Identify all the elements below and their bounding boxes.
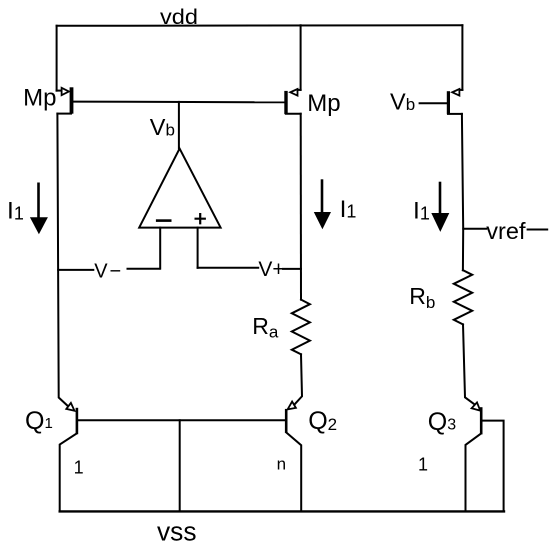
current arrow I1 left [30,184,48,234]
wire op-amp inverting input lead [159,228,161,269]
svg-text:Ra: Ra [252,313,279,342]
wire vref stub right [528,229,548,231]
wire V- net left segment [58,269,93,271]
wire left rail lower (Mp1 drain to Q1) [57,114,69,408]
svg-text:Mp: Mp [23,84,56,111]
svg-text:vdd: vdd [160,6,198,29]
svg-text:vref: vref [486,218,526,244]
wire V- net right segment [128,268,160,270]
wire V+ net right segment [283,268,301,270]
svg-text:I1: I1 [340,196,357,223]
svg-text:Q2: Q2 [308,407,337,435]
wire right rail (Mp3 drain to Rb) [462,114,463,270]
resistor Ra [292,300,310,355]
wire gate bus (Mp1 gate to Mp2 gate) [73,101,284,104]
svg-text:Vb: Vb [390,89,415,115]
transistor Mp2 [284,25,300,114]
wire Rb to Q3 emitter [463,324,477,405]
svg-text:Q1: Q1 [25,407,53,435]
svg-text:Q3: Q3 [428,408,456,436]
svg-text:n: n [277,454,286,473]
wire vss bottom rail [60,510,504,512]
svg-text:Vb: Vb [150,114,175,140]
svg-text:Mp: Mp [307,90,340,117]
svg-text:I1: I1 [413,198,430,225]
wire Vb lead (gate bus to op-amp output) [178,102,180,148]
op-amp U1 [139,149,220,228]
wire Mp3 gate lead [420,102,447,104]
transistor Mp3 [447,89,463,114]
svg-text:V: V [94,260,108,282]
wire op-amp non-inverting input lead [197,228,199,268]
wire right rail upper (vdd to Mp3 source) [461,25,463,90]
wire V+ net left segment [198,267,259,269]
svg-text:I1: I1 [7,198,24,225]
svg-text:Rb: Rb [409,283,435,312]
wire Ra to Q2 emitter [292,354,302,407]
resistor Rb [454,270,472,324]
svg-text:V+: V+ [258,258,284,281]
wire vref stub left [463,228,486,230]
transistor Q2 [285,402,301,512]
current arrow I1 middle [314,181,331,230]
wire Q1-Q2 base bus [78,419,285,421]
svg-text:vss: vss [157,517,197,544]
transistor Q1 [60,403,78,512]
svg-text:−: − [110,260,122,282]
wire middle rail (Mp2 drain to Ra) [300,114,302,300]
wire vdd top rail [57,24,463,27]
svg-text:1: 1 [74,458,84,478]
wire left rail upper (vdd to Mp1 source) [56,26,58,91]
transistor Q3 [466,402,504,511]
transistor Mp1 [57,87,74,113]
svg-text:1: 1 [418,454,428,474]
current arrow I1 right [431,183,449,232]
wire base bus tap to vss [179,420,181,511]
